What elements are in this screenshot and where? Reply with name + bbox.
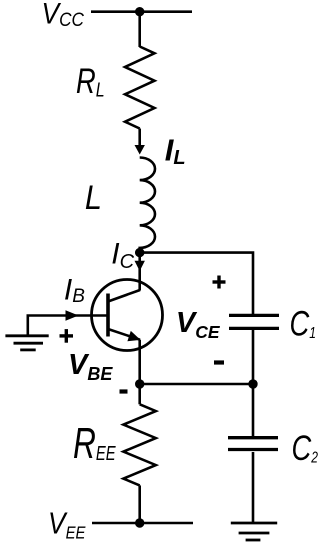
label RL: [76, 62, 105, 101]
label VCC: [42, 0, 85, 30]
svg-text:L: L: [85, 178, 102, 216]
svg-text:VCE: VCE: [176, 307, 221, 342]
svg-text:IC: IC: [111, 238, 134, 274]
label C2: [292, 429, 319, 468]
label C1: [290, 304, 316, 343]
label L: [85, 178, 102, 216]
capacitor C2: [228, 438, 278, 450]
wire emitter node to REE: [138, 384, 141, 404]
label REE: [73, 419, 116, 468]
svg-text:RL: RL: [76, 62, 105, 101]
junction VEE node: [135, 518, 144, 527]
wire VCC node to RL: [138, 12, 141, 47]
junction VCC node: [135, 7, 144, 16]
ground left: [5, 336, 48, 350]
plus VBE: [60, 329, 74, 343]
svg-text:C1: C1: [290, 304, 316, 343]
svg-text:REE: REE: [73, 419, 116, 468]
wire collector node to C1: [140, 253, 253, 314]
svg-text:VBE: VBE: [68, 349, 113, 384]
resistor REE: [123, 404, 155, 485]
ground right: [231, 523, 277, 540]
svg-text:C2: C2: [292, 429, 319, 468]
wire C1 to capacitor node: [252, 330, 255, 384]
svg-text:IB: IB: [64, 273, 85, 306]
svg-text:VEE: VEE: [48, 507, 86, 543]
inductor L: [140, 158, 155, 253]
wire capacitor node to C2: [252, 384, 255, 436]
wire VEE rail: [92, 522, 193, 525]
wire collector lead: [138, 253, 141, 291]
junction emitter node: [135, 379, 144, 388]
wire VCC rail: [91, 10, 192, 13]
minus VBE: [120, 389, 128, 393]
svg-text:IL: IL: [165, 132, 186, 169]
plus VCE: [213, 276, 226, 289]
current arrow IC: [135, 261, 145, 271]
junction C1-C2 node: [248, 379, 257, 388]
wire REE to VEE: [138, 485, 141, 523]
capacitor C1: [229, 315, 279, 328]
label VEE: [48, 507, 86, 543]
junction collector node: [135, 248, 144, 257]
wire emitter lead: [138, 340, 141, 384]
current arrow IB: [66, 310, 79, 320]
wire RL to L: [138, 129, 141, 149]
wire emitter node to capacitor node: [140, 383, 253, 386]
wire C2 to ground: [252, 452, 255, 523]
minus VCE: [214, 360, 224, 364]
wire base to ground: [28, 316, 108, 336]
transistor Q1: [92, 280, 163, 351]
current arrow IL: [135, 145, 145, 155]
svg-text:VCC: VCC: [42, 0, 85, 30]
resistor RL: [125, 47, 155, 129]
